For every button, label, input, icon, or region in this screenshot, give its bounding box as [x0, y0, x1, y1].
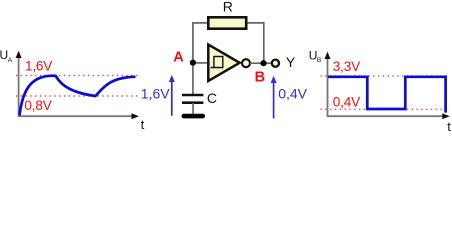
wire: resistor right leg — [247, 23, 264, 63]
op-amp style Schmitt inverter U1 triangle — [208, 45, 239, 81]
right vertical axis arrowhead — [325, 52, 331, 59]
svg-text:Y: Y — [286, 54, 296, 70]
left horizontal axis — [18, 115, 133, 117]
threshold dotted line 3,3V (right) — [321, 75, 448, 77]
output terminal Y — [272, 60, 279, 67]
svg-text:R: R — [223, 0, 233, 15]
capacitor C top plate — [182, 94, 203, 97]
svg-text:1,6V: 1,6V — [141, 86, 170, 102]
right horizontal axis arrowhead — [442, 113, 449, 119]
left horizontal axis arrowhead — [132, 113, 139, 119]
svg-text:0,4V: 0,4V — [278, 86, 307, 102]
svg-text:B: B — [317, 57, 321, 64]
right horizontal axis — [327, 115, 444, 117]
svg-text:A: A — [8, 57, 13, 64]
voltage arrow 1,6V (capacitor voltage) — [171, 79, 173, 116]
right vertical axis — [327, 56, 329, 117]
left vertical axis arrowhead — [16, 51, 22, 58]
svg-text:t: t — [447, 119, 451, 131]
wire: node A down to capacitor — [192, 63, 194, 95]
wire: capacitor to ground — [192, 103, 194, 115]
svg-text:A: A — [173, 50, 184, 66]
node B junction dot — [260, 60, 266, 66]
voltage arrow 0,4V (output voltage) — [273, 80, 275, 118]
output square waveform — [328, 77, 446, 113]
inverter output bubble — [242, 59, 250, 67]
svg-text:B: B — [255, 69, 265, 85]
svg-text:1,6V: 1,6V — [25, 59, 52, 74]
svg-text:t: t — [141, 117, 145, 131]
threshold dotted line 1.6V (left) — [16, 75, 138, 77]
left vertical axis — [18, 55, 20, 117]
input waveform curve (capacitor charge/discharge) — [20, 76, 136, 116]
ground bar — [184, 114, 203, 119]
svg-text:3,3V: 3,3V — [333, 59, 360, 74]
threshold dotted line 0.8V (left) — [16, 95, 138, 97]
resistor R body — [208, 17, 246, 28]
wire: bubble to terminal Y — [250, 62, 271, 64]
threshold dotted line 0,4V (right) — [321, 108, 448, 110]
capacitor C bottom plate — [182, 101, 203, 104]
svg-text:0,4V: 0,4V — [333, 94, 360, 109]
hysteresis symbol inside inverter — [211, 57, 223, 68]
svg-text:C: C — [207, 90, 217, 106]
wire: resistor left leg — [193, 23, 208, 63]
svg-text:0,8V: 0,8V — [24, 98, 51, 113]
node A junction dot — [190, 60, 196, 66]
wire: node A to inverter input — [193, 62, 208, 64]
